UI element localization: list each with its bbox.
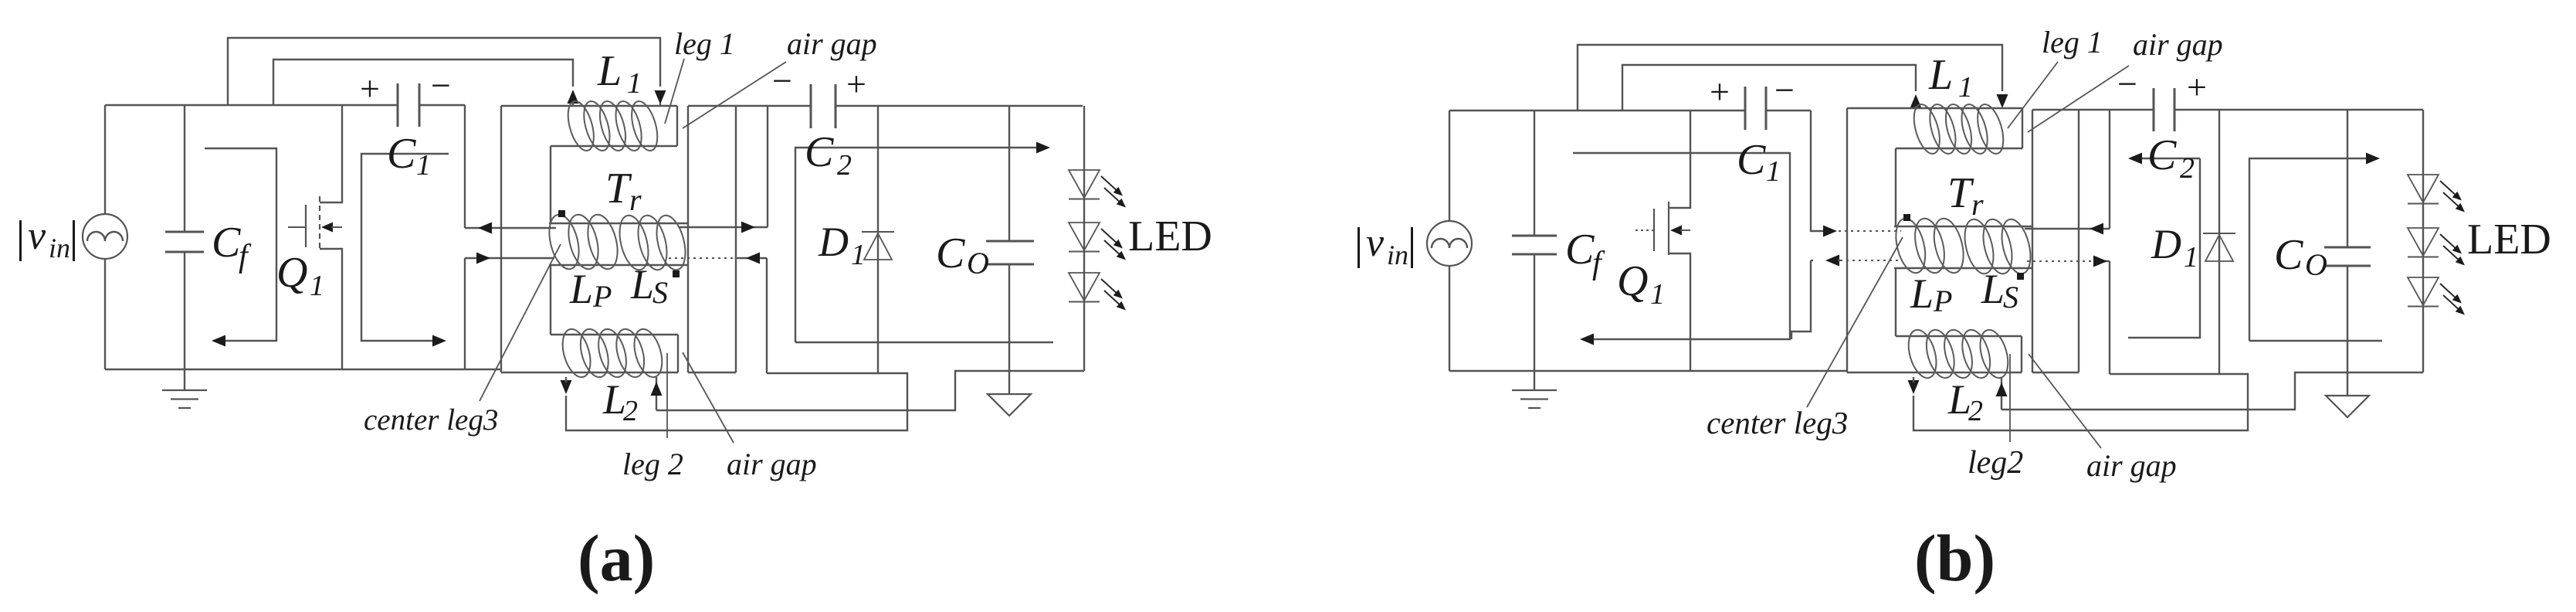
svg-text:D: D xyxy=(2151,221,2181,267)
svg-text:1: 1 xyxy=(627,67,642,100)
LED diode 1 (b) xyxy=(2408,175,2465,212)
wire primary lower lead (a) xyxy=(465,257,554,259)
label C1 (a) xyxy=(387,130,431,182)
capacitor C2 (a) xyxy=(811,84,836,128)
svg-text:r: r xyxy=(629,182,642,217)
transformer core right leg inner (b) xyxy=(2078,110,2079,372)
inductor LP winding (a) xyxy=(544,212,622,272)
label minus C1 (b) xyxy=(1774,70,1795,110)
wire top loop 2 (b) xyxy=(1622,65,1916,110)
arrow down into L1 right (a) xyxy=(655,90,666,107)
label L1 (b) xyxy=(1928,51,1973,104)
svg-text:in: in xyxy=(49,233,70,263)
svg-text:L: L xyxy=(569,266,593,312)
current loop 3 arrow (b) xyxy=(2128,153,2200,338)
capacitor Cf (b) xyxy=(1512,110,1557,371)
svg-text:2: 2 xyxy=(623,395,638,427)
transistor Q1 channel (a) xyxy=(319,196,320,250)
label minus C1 (a) xyxy=(431,66,451,105)
svg-text:air gap: air gap xyxy=(787,26,877,61)
label LS (b) xyxy=(1981,266,2018,314)
arrow down on L2 left (b) xyxy=(1908,377,1920,394)
svg-text:C: C xyxy=(1737,136,1766,184)
transistor Q1 body arrow (b) xyxy=(1670,226,1690,236)
label Cf (b) xyxy=(1565,226,1605,281)
svg-text:O: O xyxy=(967,246,989,280)
label CO (b) xyxy=(2274,231,2327,282)
wire drain branch Q1 (b) xyxy=(1669,110,1690,208)
transistor Q1 gate bar (a) xyxy=(305,205,307,247)
inductor LP winding (b) xyxy=(1891,216,1968,276)
transformer core window left upper (b) xyxy=(1895,148,1896,226)
label Tr (b) xyxy=(1947,169,1984,222)
wire primary lower dotted (b) xyxy=(1840,260,1903,261)
svg-text:C: C xyxy=(2274,231,2303,279)
label D1 (b) xyxy=(2151,221,2198,274)
polarity dot LS (a) xyxy=(673,270,680,277)
LED diode 3 (b) xyxy=(2408,277,2465,315)
svg-text:1: 1 xyxy=(1766,155,1781,188)
arrow down on L2 left (a) xyxy=(561,377,572,394)
wire top loop 1 (b) xyxy=(1578,45,2002,110)
svg-text:+: + xyxy=(846,64,866,104)
label leg2 (b) xyxy=(1968,445,2023,481)
diode D1 branch (b) xyxy=(2218,110,2220,374)
svg-text:C: C xyxy=(1565,226,1595,274)
wire bottom rail (b) xyxy=(1449,370,1847,372)
transformer core right leg outer (b) xyxy=(2032,110,2033,372)
label air gap top (b) xyxy=(2133,27,2223,62)
wire C2 top right (a) xyxy=(836,105,1083,107)
svg-text:leg2: leg2 xyxy=(1968,445,2023,481)
wire C2 top right (b) xyxy=(2174,109,2423,110)
arrow down into L1 right (b) xyxy=(1997,94,2008,108)
label vin (b) xyxy=(1357,221,1413,270)
svg-text:2: 2 xyxy=(1968,395,1983,427)
current loop 3 arrow (a) xyxy=(795,142,1053,343)
svg-text:(b): (b) xyxy=(1914,521,1995,595)
label L1 (a) xyxy=(597,47,642,100)
transformer core top bar lower edge (b) xyxy=(1896,148,2022,149)
wire input branch lower (b) xyxy=(1449,266,1450,371)
label air gap top (a) xyxy=(787,26,877,61)
svg-text:T: T xyxy=(1947,169,1974,217)
source |vin| (a) xyxy=(83,214,127,259)
svg-text:Q: Q xyxy=(1617,257,1648,305)
label C2 (b) xyxy=(2147,131,2195,185)
wire primary lower return (b) xyxy=(1791,260,1811,339)
wire primary upper lead (a) xyxy=(465,227,556,229)
wire C1 loop right branch upper (a) xyxy=(464,105,466,228)
diode D1 (b) xyxy=(2203,233,2235,261)
capacitor CO (b) xyxy=(2324,247,2371,266)
svg-text:(a): (a) xyxy=(578,521,655,595)
LED diode 2 (a) xyxy=(1069,223,1126,260)
transformer core bottom bar (a) xyxy=(501,372,678,373)
transformer core bottom bar upper edge (b) xyxy=(1896,335,2022,337)
capacitor C1 (a) xyxy=(398,83,419,127)
svg-text:T: T xyxy=(605,165,632,212)
transformer core window left upper (a) xyxy=(550,146,551,223)
wire input branch upper (a) xyxy=(104,105,106,214)
label Tr (a) xyxy=(605,165,642,217)
pointer center leg3 (a) xyxy=(480,244,561,401)
inductor L1 winding (b) xyxy=(1909,101,2008,156)
capacitor CO (a) xyxy=(986,241,1034,264)
transistor Q1 body arrow (a) xyxy=(321,223,342,233)
svg-text:L: L xyxy=(630,261,654,308)
pointer leg 1 (a) xyxy=(665,59,684,124)
svg-text:v: v xyxy=(1366,221,1385,265)
arrow left on secondary upper (b) xyxy=(2090,223,2103,235)
wire C2 top left (b) xyxy=(2032,109,2154,110)
label LED (b) xyxy=(2467,216,2551,263)
wire primary lower lead (b) xyxy=(1811,255,1840,267)
transformer core center leg top (a) xyxy=(549,223,687,224)
wire C1 right jog (b) xyxy=(1766,110,1811,111)
svg-text:−: − xyxy=(1774,70,1795,110)
svg-text:S: S xyxy=(2003,280,2018,314)
node rail top (b) xyxy=(1449,110,1745,111)
label minus C2 (a) xyxy=(772,61,792,100)
svg-text:LED: LED xyxy=(1128,212,1212,260)
arrow left on secondary lower (a) xyxy=(746,253,760,264)
diode D1 (a) xyxy=(862,232,894,260)
source |vin| (b) xyxy=(1427,221,1472,266)
transformer core leg2 right edge (a) xyxy=(677,335,679,372)
LED diode 1 (a) xyxy=(1069,170,1126,208)
svg-text:L: L xyxy=(1910,270,1934,317)
label CO (a) xyxy=(936,229,989,280)
transformer core center leg bottom (a) xyxy=(549,264,688,266)
LED diode 2 (b) xyxy=(2408,228,2465,266)
wire secondary return (a) xyxy=(566,373,907,430)
svg-text:L: L xyxy=(597,47,622,95)
label plus C2 (a) xyxy=(846,64,866,104)
capacitor C2 (b) xyxy=(2154,88,2174,131)
wire primary upper dotted (b) xyxy=(1839,230,1901,232)
wire source branch Q1 (a) xyxy=(320,249,342,369)
LED branch (b) xyxy=(2422,110,2424,372)
pointer center leg3 (b) xyxy=(1807,237,1903,407)
pointer leg 2 (b) xyxy=(2009,354,2011,442)
svg-text:center leg3: center leg3 xyxy=(1707,405,1848,440)
label C1 (b) xyxy=(1737,136,1781,188)
svg-text:1: 1 xyxy=(416,149,431,182)
inductor L2 winding (b) xyxy=(1903,327,2013,381)
transformer core window left lower (b) xyxy=(1895,268,1896,336)
svg-text:C: C xyxy=(387,130,416,178)
svg-text:1: 1 xyxy=(2184,241,2198,274)
arrow left on primary upper (a) xyxy=(478,223,492,234)
capacitor CO branch upper (a) xyxy=(1008,106,1010,241)
label LED (a) xyxy=(1128,212,1212,260)
arrow right on primary lower (a) xyxy=(476,253,490,264)
caption (b) xyxy=(1914,521,1995,595)
transformer core center leg top (b) xyxy=(1894,226,2032,227)
wire drain branch Q1 (a) xyxy=(320,105,342,202)
label LP (b) xyxy=(1910,270,1952,318)
transformer core window left lower (a) xyxy=(550,265,551,335)
svg-text:+: + xyxy=(1710,72,1730,111)
svg-text:C: C xyxy=(212,219,241,267)
label minus C2 (b) xyxy=(2117,64,2137,104)
svg-text:S: S xyxy=(652,275,668,310)
label Q1 (b) xyxy=(1617,257,1665,311)
wire C1 right to loop corner (a) xyxy=(419,104,465,106)
ground symbol G2 (a) xyxy=(988,394,1031,416)
label plus C2 (b) xyxy=(2187,67,2207,107)
label D1 (a) xyxy=(818,219,866,271)
capacitor CO branch lower (a) xyxy=(1008,264,1010,394)
wire top loop 2 (a) xyxy=(273,59,573,105)
capacitor Cf (a) xyxy=(165,105,204,369)
capacitor C1 (b) xyxy=(1745,87,1766,130)
arrow right on secondary upper (a) xyxy=(741,222,755,233)
wire source branch Q1 (b) xyxy=(1669,253,1690,371)
caption (a) xyxy=(578,521,655,595)
svg-text:−: − xyxy=(2117,64,2137,104)
pointer leg 2 (a) xyxy=(666,353,668,438)
label C2 (a) xyxy=(805,128,852,182)
transformer core leg2 right edge (b) xyxy=(2021,336,2022,372)
svg-text:L: L xyxy=(1928,51,1953,99)
wire input branch lower (a) xyxy=(104,259,106,369)
transistor Q1 gate bar (b) xyxy=(1653,209,1655,251)
wire bottom rail (a) xyxy=(105,369,501,370)
wire secondary lower lead (a) xyxy=(737,258,767,373)
LED diode 3 (a) xyxy=(1069,273,1126,311)
wire C2 top left (a) xyxy=(688,105,811,107)
inductor LS winding (b) xyxy=(1960,216,2035,277)
transformer core top bar (b) xyxy=(1847,107,2022,109)
svg-text:Q: Q xyxy=(276,249,307,297)
svg-text:leg 1: leg 1 xyxy=(674,26,735,61)
svg-text:2: 2 xyxy=(2180,152,2195,185)
pointer air gap top (b) xyxy=(2028,66,2129,132)
svg-text:O: O xyxy=(2305,247,2327,282)
label Q1 (a) xyxy=(276,249,324,302)
transformer core right leg inner (a) xyxy=(735,106,737,372)
svg-text:L: L xyxy=(1981,266,2005,312)
svg-text:−: − xyxy=(431,66,451,105)
svg-text:air gap: air gap xyxy=(727,447,817,481)
label plus C1 (a) xyxy=(360,69,380,108)
svg-text:1: 1 xyxy=(851,239,866,271)
pointer air gap bottom (b) xyxy=(2029,354,2101,448)
arrow up on L2 right (b) xyxy=(1996,382,2008,396)
svg-text:leg 1: leg 1 xyxy=(2042,25,2103,59)
arrow right on primary upper (b) xyxy=(1823,226,1837,237)
transformer core right leg bottom (b) xyxy=(2032,372,2079,373)
svg-text:C: C xyxy=(936,229,965,277)
current loop 1 arrow (b) xyxy=(1573,153,1790,345)
wire secondary upper lead (a) xyxy=(680,106,768,227)
label plus C1 (b) xyxy=(1710,72,1730,111)
wire input branch upper (b) xyxy=(1449,110,1450,221)
arrow up on L2 right (a) xyxy=(651,382,663,396)
label air gap bottom (b) xyxy=(2086,448,2177,483)
label vin (a) xyxy=(19,214,75,263)
transformer core outer left (b) xyxy=(1846,108,1848,372)
transformer core outer left (a) xyxy=(500,106,502,372)
svg-text:+: + xyxy=(360,69,380,108)
pointer air gap top (a) xyxy=(683,62,786,128)
capacitor CO branch lower (b) xyxy=(2347,266,2348,396)
current loop 1 arrow (a) xyxy=(205,148,276,347)
ground symbol G2 (b) xyxy=(2326,396,2369,417)
label Cf (a) xyxy=(212,219,252,274)
diode D1 branch (a) xyxy=(877,106,879,373)
inductor L2 winding (a) xyxy=(558,326,667,380)
svg-text:air gap: air gap xyxy=(2133,27,2223,62)
label leg 2 (a) xyxy=(622,447,683,481)
label leg 1 (b) xyxy=(2042,25,2103,59)
svg-text:−: − xyxy=(772,61,792,100)
wire top loop 1 (a) xyxy=(228,38,660,105)
wire L2 right to output (a) xyxy=(656,371,1084,410)
svg-text:1: 1 xyxy=(1958,71,1973,104)
wire L2 right to output (b) xyxy=(2001,372,2423,410)
transformer core center leg bottom (b) xyxy=(1894,267,2033,269)
inductor LS winding (a) xyxy=(615,212,690,273)
pointer leg 1 (b) xyxy=(2008,62,2058,128)
wire secondary upper lead (b) xyxy=(2025,110,2110,229)
svg-text:P: P xyxy=(592,279,612,314)
svg-text:C: C xyxy=(805,128,834,176)
svg-text:+: + xyxy=(2187,67,2207,107)
transformer core bottom bar upper edge (a) xyxy=(551,334,678,335)
wire secondary lower dotted (b) xyxy=(2027,260,2095,262)
svg-text:center leg3: center leg3 xyxy=(364,403,498,437)
current loop 4 arrow (b) xyxy=(2249,153,2382,342)
label center leg3 (b) xyxy=(1707,405,1848,440)
transformer core bottom bar (b) xyxy=(1847,372,2022,373)
svg-text:v: v xyxy=(28,214,46,258)
transformer core leg1 right edge (b) xyxy=(2022,108,2023,148)
label LS (a) xyxy=(630,261,668,310)
label center leg3 (a) xyxy=(364,403,498,437)
label L2 (b) xyxy=(1947,376,1983,427)
pointer air gap bottom (a) xyxy=(683,352,734,443)
current loop 2 arrow (a) xyxy=(361,154,449,347)
svg-text:air gap: air gap xyxy=(2086,448,2177,483)
arrow up at L1 left (b) xyxy=(1910,94,1922,110)
transistor Q1 gate lead dotted (b) xyxy=(1635,229,1654,231)
wire secondary lower dotted (a) xyxy=(669,257,737,259)
svg-text:in: in xyxy=(1387,240,1408,270)
label air gap bottom (a) xyxy=(727,447,817,481)
inductor L1 winding (a) xyxy=(563,98,662,153)
LED branch (a) xyxy=(1083,106,1085,371)
ground symbol G1 (b) xyxy=(1512,371,1557,408)
svg-text:leg 2: leg 2 xyxy=(622,447,683,481)
svg-text:P: P xyxy=(1933,284,1952,318)
transistor Q1 channel (b) xyxy=(1668,202,1669,255)
arrow up at L1 left (a) xyxy=(568,90,579,107)
capacitor CO branch upper (b) xyxy=(2347,110,2348,247)
transformer core top bar lower edge (a) xyxy=(551,145,677,147)
transformer core right leg bottom (a) xyxy=(688,372,736,373)
polarity dot LP (a) xyxy=(558,210,565,217)
wire C1 loop right branch lower (a) xyxy=(464,258,466,370)
wire C1 right branch (b) xyxy=(1811,110,1824,231)
node rail top (a) xyxy=(105,104,398,106)
label L2 (a) xyxy=(602,376,638,427)
svg-text:1: 1 xyxy=(1650,278,1665,311)
transistor Q1 gate lead (a) xyxy=(288,226,306,228)
transformer core right leg outer (a) xyxy=(687,106,689,372)
wire secondary lower lead (b) xyxy=(2095,261,2110,374)
transformer core top bar (a) xyxy=(501,105,677,107)
svg-text:D: D xyxy=(818,219,849,265)
polarity dot LS (b) xyxy=(2017,273,2024,280)
ground symbol G1 (a) xyxy=(162,369,207,408)
wire secondary return (b) xyxy=(1913,374,2248,430)
svg-text:1: 1 xyxy=(310,270,324,302)
arrow right on secondary lower (b) xyxy=(2093,256,2107,267)
svg-text:r: r xyxy=(1971,187,1984,222)
label leg 1 (a) xyxy=(674,26,735,61)
transformer core leg1 right edge (a) xyxy=(676,106,678,146)
svg-text:LED: LED xyxy=(2467,216,2551,263)
polarity dot LP (b) xyxy=(1903,214,1910,221)
label LP (a) xyxy=(569,266,612,314)
svg-text:2: 2 xyxy=(837,149,852,182)
svg-text:C: C xyxy=(2147,131,2177,179)
